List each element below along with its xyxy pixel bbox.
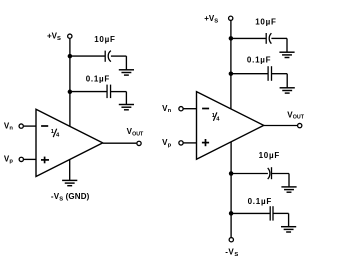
svg-text:OUT: OUT <box>293 115 305 121</box>
svg-text:p: p <box>9 159 13 165</box>
svg-text:p: p <box>168 142 172 148</box>
svg-text:10µF: 10µF <box>94 35 115 44</box>
svg-text:0.1µF: 0.1µF <box>248 197 272 206</box>
svg-text:(GND): (GND) <box>66 192 90 201</box>
svg-text:n: n <box>168 108 172 114</box>
svg-text:OUT: OUT <box>132 131 144 137</box>
svg-text:0.1µF: 0.1µF <box>86 75 110 84</box>
svg-text:S: S <box>59 196 63 202</box>
svg-text:S: S <box>234 252 238 258</box>
svg-text:10µF: 10µF <box>259 151 280 160</box>
svg-text:-V: -V <box>225 247 234 256</box>
svg-text:10µF: 10µF <box>255 17 276 26</box>
svg-text:n: n <box>9 126 13 132</box>
svg-text:0.1µF: 0.1µF <box>247 55 271 64</box>
svg-text:S: S <box>214 19 218 25</box>
svg-text:S: S <box>57 36 61 42</box>
